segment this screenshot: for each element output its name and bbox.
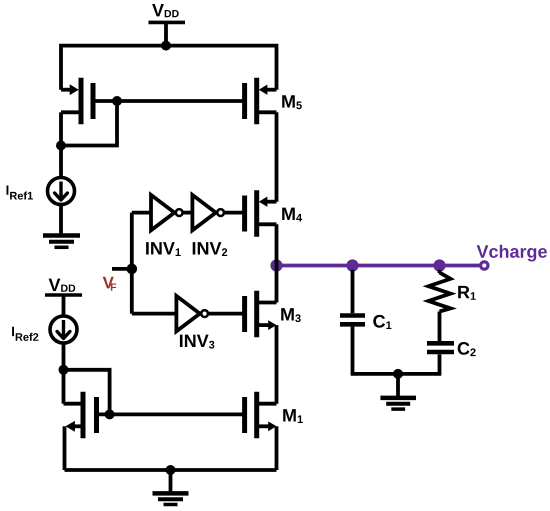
current source IRef1 <box>48 178 75 205</box>
wire left NMOS drain up <box>62 370 66 404</box>
wire VF stub <box>112 267 132 271</box>
power VDD left supply symbol <box>45 295 82 316</box>
label C1 <box>373 315 391 329</box>
wire IRef1 to ground <box>59 205 63 236</box>
transistor NMOS mirror (left bottom, diode-connected) <box>64 392 97 439</box>
capacitor C2 <box>427 343 454 352</box>
terminal Vcharge open circle <box>481 262 488 269</box>
node ground tap <box>393 369 403 379</box>
label INV1 <box>146 242 181 256</box>
wire diode connection bottom mirror <box>64 370 110 415</box>
wire C1 top <box>351 270 355 313</box>
label VDD left <box>49 279 76 292</box>
label INV3 <box>180 335 215 349</box>
transistor M3 NMOS <box>245 291 277 338</box>
capacitor C1 <box>340 316 365 325</box>
wire VF vertical <box>130 213 134 314</box>
inverter INV3 <box>176 296 208 331</box>
node output at M4/M3 (purple) <box>270 259 282 271</box>
power VDD top supply symbol <box>149 22 186 45</box>
wire INV3 to M3 gate <box>208 312 245 316</box>
ground bottom center <box>153 470 189 505</box>
inverter INV2 <box>192 195 224 230</box>
wire left NMOS source down <box>63 426 67 470</box>
node gate tap <box>112 96 122 106</box>
wire mirror gate bus <box>93 99 245 103</box>
wire bottom ground rail <box>65 468 277 472</box>
wire bottom mirror gate bus <box>97 412 245 416</box>
wire INV1 to INV2 <box>182 211 192 215</box>
wire C2 bottom <box>438 354 442 374</box>
wire INV3 input <box>132 312 177 316</box>
label VF <box>103 277 117 291</box>
wire output node to M3 drain <box>275 266 279 303</box>
junction node on top rail <box>161 41 171 51</box>
wire IRef2 to node <box>62 343 66 370</box>
transistor M1 NMOS <box>245 392 277 439</box>
node output at R1 (purple) <box>433 259 445 271</box>
node IRef1 top <box>56 141 66 151</box>
ground output network <box>380 374 416 409</box>
transistor M5 PMOS <box>245 78 277 125</box>
wire M5 drain to M4 source <box>275 112 279 201</box>
node bottom gate tap <box>105 409 115 419</box>
label M5 <box>282 95 302 109</box>
wire diode connection top mirror <box>61 101 117 146</box>
node bottom rail <box>166 465 176 475</box>
wire C1 bottom <box>351 327 355 374</box>
inverter INV1 <box>151 195 183 230</box>
wire R1 to C2 <box>438 312 442 342</box>
wire INV2 to M4 gate <box>224 211 245 215</box>
wire top VDD rail <box>61 46 277 90</box>
wire INV1 input <box>132 211 151 215</box>
resistor R1 <box>429 273 451 312</box>
label M3 <box>281 308 301 322</box>
label INV2 <box>193 242 228 256</box>
label Vcharge <box>477 245 547 262</box>
node output at C1 (purple) <box>346 259 358 271</box>
transistor PMOS mirror (left, diode-connected) <box>61 78 93 125</box>
wire left PMOS drain down <box>59 112 63 145</box>
label C2 <box>458 342 476 356</box>
label M1 <box>283 409 303 423</box>
label M4 <box>282 208 302 222</box>
wire M1 source down <box>275 426 279 470</box>
current source IRef2 <box>50 316 77 343</box>
wire M4 drain to output node <box>275 224 279 265</box>
wire node to IRef1 <box>59 146 63 179</box>
label R1 <box>458 286 476 300</box>
label IRef1 <box>7 186 33 200</box>
wire R1 top <box>438 270 442 273</box>
node IRef2 bottom <box>59 365 69 375</box>
ground IRef1 <box>43 236 80 248</box>
wire output bus (purple) <box>277 264 481 268</box>
node VF <box>127 264 138 275</box>
label VDD top <box>152 4 179 17</box>
wire M3 source to M1 drain <box>275 325 279 404</box>
label IRef2 <box>12 327 38 341</box>
transistor M4 PMOS <box>245 190 277 237</box>
wire bottom link C1-C2 <box>351 372 442 376</box>
